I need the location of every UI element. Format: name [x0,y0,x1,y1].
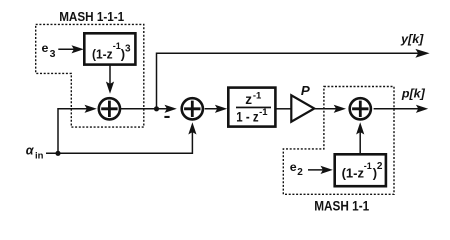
svg-text:MASH 1-1: MASH 1-1 [314,199,369,214]
svg-text:-1: -1 [259,107,268,118]
svg-text:(1-z: (1-z [92,47,113,62]
svg-text:p[k]: p[k] [401,89,426,101]
svg-text:in: in [35,151,44,162]
svg-text:2: 2 [297,167,303,178]
svg-text:1 - z: 1 - z [236,109,259,124]
svg-text:3: 3 [125,44,131,55]
svg-text:z: z [245,92,252,107]
svg-text:y[k]: y[k] [400,34,425,46]
svg-text:(1-z: (1-z [342,166,365,181]
svg-text:-1: -1 [253,90,262,101]
svg-text:3: 3 [50,48,56,60]
svg-text:MASH 1-1-1: MASH 1-1-1 [59,9,124,24]
svg-text:e: e [42,41,49,55]
svg-text:2: 2 [377,161,383,172]
svg-text:e: e [290,160,297,174]
svg-text:α: α [26,144,35,158]
svg-text:P: P [301,83,310,98]
svg-text:-1: -1 [113,41,121,51]
svg-text:-1: -1 [364,161,372,171]
